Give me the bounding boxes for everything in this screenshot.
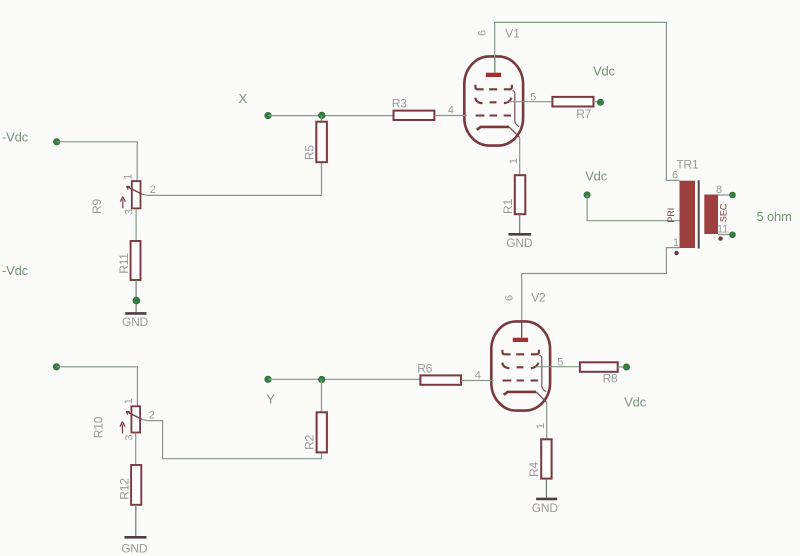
svg-text:R2: R2: [302, 434, 316, 449]
wire R12 to ground: [135, 505, 137, 536]
svg-text:1: 1: [123, 174, 135, 180]
wire V2 pin1 to R4: [546, 402, 548, 439]
resistor R11: [117, 241, 141, 280]
svg-text:V2: V2: [531, 290, 546, 304]
resistor R2: [302, 412, 327, 452]
ground (under R1): [506, 234, 533, 250]
secondary winding SEC: [704, 195, 718, 235]
node pin 11 endpoint: [730, 232, 736, 238]
ground (under R12): [121, 537, 148, 555]
svg-text:V1: V1: [505, 26, 520, 40]
svg-text:PRI: PRI: [666, 208, 676, 223]
svg-text:R4: R4: [527, 462, 541, 477]
svg-text:5: 5: [557, 356, 563, 368]
node Y-net left endpoint: [53, 364, 59, 370]
transformer TR1: [666, 158, 729, 256]
envelope V2: [491, 321, 550, 410]
anode pin line V2: [521, 321, 523, 337]
svg-text:2: 2: [149, 409, 155, 421]
grid g3 row V2: [502, 350, 539, 355]
svg-text:GND: GND: [532, 501, 559, 515]
node Y / R2 junction: [319, 376, 325, 382]
grid g1 row V2: [503, 379, 538, 381]
potentiometer R9: [90, 174, 156, 215]
svg-text:-Vdc: -Vdc: [2, 263, 29, 278]
svg-text:2: 2: [150, 184, 156, 196]
svg-text:5 ohm: 5 ohm: [757, 209, 792, 224]
svg-text:6: 6: [672, 170, 678, 182]
grid g2 row V1: [475, 98, 511, 104]
phase dot primary: [674, 251, 678, 255]
wire -Vdc to R9 pin1: [57, 142, 138, 181]
resistor R7: [552, 97, 593, 121]
svg-text:4: 4: [448, 104, 454, 116]
wire left endpoint to R10 pin1: [57, 367, 138, 407]
resistor R12: [117, 465, 141, 505]
svg-text:R11: R11: [117, 253, 131, 274]
svg-text:GND: GND: [121, 542, 148, 556]
svg-text:Vdc: Vdc: [624, 395, 647, 410]
wire R10 pin2 to R2 bottom: [142, 419, 322, 458]
wire R8 to Vdc node: [618, 366, 624, 368]
node Vdc middle endpoint: [584, 192, 590, 198]
node -Vdc upper endpoint: [54, 139, 60, 145]
tube V2 (pentode): [461, 295, 580, 439]
cathode pin 1 line V1: [509, 127, 520, 137]
wire R7 to Vdc node: [594, 101, 598, 103]
suppressor link V1: [512, 90, 519, 127]
wire R9 pin3 to R11: [135, 209, 137, 242]
svg-text:R8: R8: [603, 372, 618, 386]
wire V1 anode to TR1 pin 6: [495, 22, 680, 180]
svg-text:R9: R9: [90, 199, 104, 214]
cathode V1: [477, 127, 509, 130]
svg-text:1: 1: [123, 398, 135, 404]
node Y endpoint: [265, 376, 271, 382]
pin 5 line V2: [536, 366, 580, 368]
anode plate V2: [513, 338, 528, 342]
pin 4 line V2: [461, 380, 494, 382]
svg-text:5: 5: [530, 91, 536, 103]
phase dot secondary: [718, 236, 722, 240]
svg-text:R12: R12: [117, 478, 131, 500]
anode plate V1: [486, 73, 501, 77]
wire Vdc to TR1 primary tap: [587, 195, 679, 221]
pin 4 line V1: [435, 115, 467, 117]
svg-text:TR1: TR1: [676, 158, 699, 172]
wire V1 pin1 to R1: [519, 137, 521, 175]
svg-text:11: 11: [717, 224, 728, 236]
suppressor link V2: [539, 355, 546, 392]
tube V1 (pentode): [435, 30, 553, 175]
resistor R5: [303, 122, 327, 163]
wire TR1 pin 1 to V2 anode: [522, 248, 680, 322]
svg-text:6: 6: [504, 295, 516, 301]
primary winding PRI: [680, 181, 696, 248]
wire R1 to ground: [519, 214, 521, 233]
svg-text:X: X: [239, 91, 248, 106]
ground (under R11): [122, 313, 149, 329]
svg-text:SEC: SEC: [719, 203, 729, 222]
wire Y to R6: [268, 378, 420, 380]
resistor R4: [527, 439, 552, 478]
wire R4 to ground: [545, 479, 547, 498]
node X / R5 junction: [319, 112, 325, 118]
ground (under R4): [532, 499, 559, 515]
svg-text:1: 1: [508, 158, 520, 164]
svg-text:3: 3: [124, 209, 136, 215]
wire TR1 pin 8: [718, 194, 730, 196]
node X endpoint: [265, 112, 271, 118]
resistor R6: [417, 361, 461, 385]
resistor R3: [392, 96, 435, 120]
svg-text:R7: R7: [576, 107, 591, 121]
svg-text:R10: R10: [92, 416, 106, 438]
wire X to R3: [268, 115, 393, 117]
wire junction to R2 top: [321, 380, 323, 413]
node Vdc (top, at R7): [597, 99, 603, 105]
potentiometer R10: [92, 398, 155, 440]
svg-text:R1: R1: [501, 199, 515, 214]
node Vdc (bottom, at R8): [623, 364, 629, 370]
pin 5 line V1: [509, 101, 553, 103]
cathode pin 1 line V2: [536, 392, 547, 403]
svg-text:R3: R3: [392, 96, 407, 110]
svg-text:GND: GND: [506, 236, 533, 250]
svg-text:-Vdc: -Vdc: [2, 130, 29, 145]
svg-text:Y: Y: [266, 391, 275, 406]
svg-text:Vdc: Vdc: [585, 168, 608, 183]
anode pin line V1: [494, 56, 496, 72]
wire R9 pin2 to R5 bottom: [142, 162, 321, 195]
node pin 8 endpoint: [730, 192, 736, 198]
resistor R1: [501, 175, 526, 214]
svg-text:Vdc: Vdc: [593, 64, 616, 79]
svg-text:R6: R6: [417, 361, 432, 375]
svg-text:GND: GND: [122, 315, 149, 329]
wire junction to R5 top: [321, 115, 323, 121]
node R11 ground junction: [133, 297, 140, 304]
resistor R8: [580, 362, 618, 385]
cathode V2: [504, 392, 536, 395]
grid g2 row V2: [502, 363, 538, 369]
wire R11 to ground: [135, 280, 137, 312]
grid g3 row V1: [475, 85, 512, 90]
envelope V1: [464, 56, 523, 145]
svg-text:R5: R5: [303, 145, 317, 160]
core: [698, 180, 700, 248]
wire R10 pin3 to R12: [135, 433, 137, 465]
svg-text:4: 4: [475, 369, 481, 381]
wire TR1 pin 11: [718, 234, 730, 236]
grid g1 row V1: [476, 114, 512, 116]
svg-text:3: 3: [123, 434, 135, 440]
svg-text:6: 6: [477, 30, 489, 36]
svg-text:1: 1: [535, 423, 547, 429]
